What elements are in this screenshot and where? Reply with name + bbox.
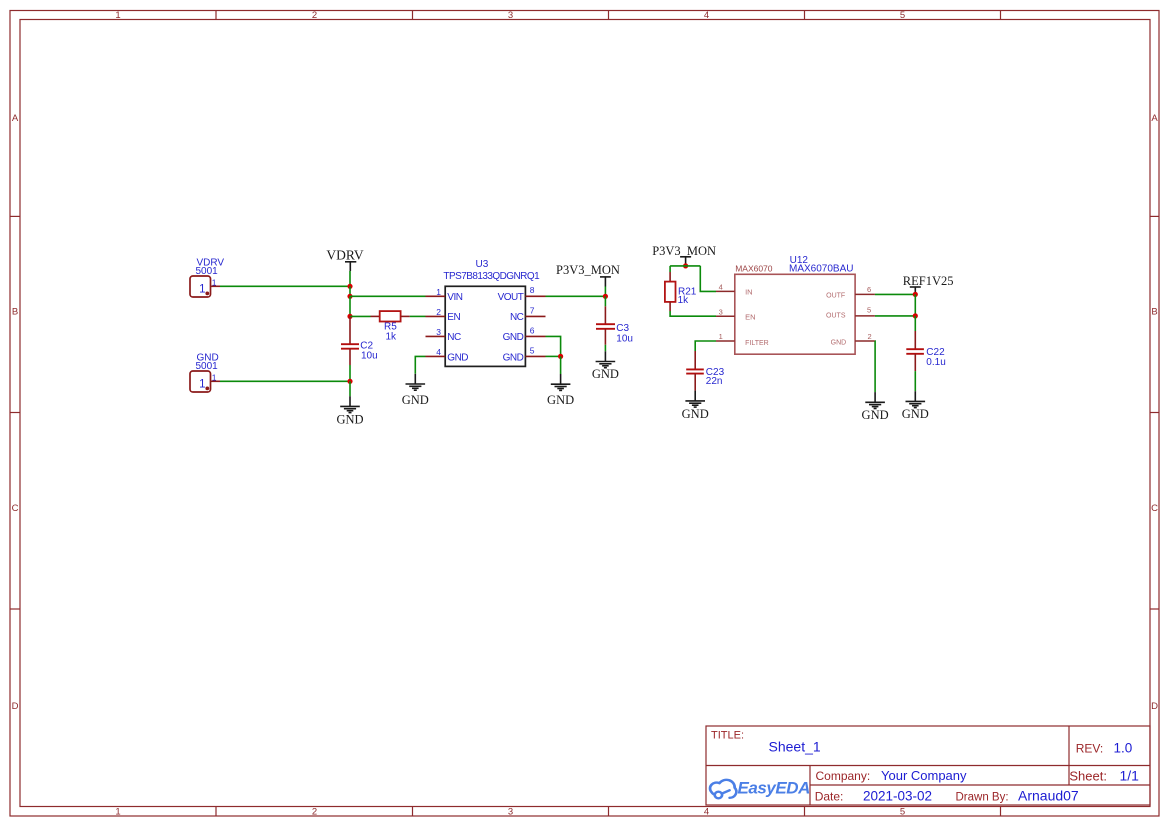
U12 pin 4 stub — [716, 290, 735, 292]
svg-text:GND: GND — [831, 340, 847, 347]
svg-text:Company:: Company: — [816, 769, 871, 783]
frame column numbers bottom — [115, 806, 905, 817]
junction REF1V25 lower — [913, 313, 918, 318]
svg-text:4: 4 — [704, 806, 709, 817]
connector GND pin 1 stub — [211, 380, 221, 382]
svg-text:GND: GND — [503, 352, 524, 363]
wire OUTS to node — [875, 315, 915, 317]
frame row letters right — [1151, 113, 1158, 712]
svg-text:5001: 5001 — [196, 361, 219, 372]
ground symbol U3 right — [551, 374, 571, 390]
connector P? GND 5001 — [190, 371, 211, 392]
svg-text:1: 1 — [199, 283, 205, 295]
svg-text:1: 1 — [719, 332, 723, 341]
wire junction to ground U3 right — [560, 356, 562, 374]
svg-text:D: D — [12, 701, 19, 712]
svg-text:8: 8 — [530, 285, 535, 295]
svg-text:2: 2 — [312, 806, 317, 817]
svg-text:4: 4 — [719, 283, 723, 292]
wire U3 pin 6 to pin 5 node — [546, 336, 561, 356]
svg-text:IN: IN — [745, 288, 753, 297]
title block lines — [706, 726, 1150, 805]
svg-text:GND: GND — [862, 408, 889, 422]
transistor U12 body — [735, 274, 855, 354]
svg-text:GND: GND — [547, 393, 574, 407]
U3 pin 5 stub — [525, 355, 545, 357]
svg-text:3: 3 — [719, 307, 723, 316]
svg-text:3: 3 — [508, 10, 513, 21]
wire REF node down — [914, 294, 916, 316]
svg-text:REV:: REV: — [1076, 742, 1104, 756]
svg-text:2021-03-02: 2021-03-02 — [863, 789, 932, 804]
svg-text:NC: NC — [447, 332, 461, 343]
wire GND connector to gnd node — [220, 380, 350, 382]
U12 pin 3 stub — [716, 315, 735, 317]
svg-text:MAX6070: MAX6070 — [735, 264, 773, 274]
wire node to C22 — [914, 316, 916, 331]
junction REF1V25 upper — [913, 292, 918, 297]
U3 pin 1 stub — [426, 295, 446, 297]
wire R21 bottom to EN — [670, 311, 716, 316]
svg-text:10u: 10u — [361, 351, 378, 362]
svg-text:GND: GND — [447, 352, 468, 363]
wire EN tap to R5 — [350, 315, 371, 317]
svg-text:B: B — [12, 307, 18, 318]
svg-text:Arnaud07: Arnaud07 — [1018, 788, 1079, 804]
wire P3V3_MON node horizontal — [670, 265, 700, 267]
svg-text:1: 1 — [436, 287, 441, 297]
U12 pin 2 stub — [855, 340, 875, 342]
svg-text:5: 5 — [530, 345, 535, 355]
wire rail down to EN tap — [349, 296, 351, 316]
U3 pin 8 stub — [525, 295, 545, 297]
svg-text:GND: GND — [503, 332, 524, 343]
svg-text:4: 4 — [704, 10, 709, 21]
svg-text:2: 2 — [868, 332, 872, 341]
U3 pin 3 stub — [426, 335, 446, 337]
U3 pin 4 stub — [426, 355, 446, 357]
U12 pin 6 stub — [855, 293, 875, 295]
wire FILTER to C23 — [695, 341, 716, 351]
wire OUTF to REF1V25 node — [875, 293, 915, 295]
svg-text:2: 2 — [312, 10, 317, 21]
net flag REF1V25 — [903, 274, 954, 294]
svg-text:D: D — [1151, 701, 1158, 712]
svg-text:MAX6070BAU: MAX6070BAU — [789, 263, 853, 274]
junction P3V3_MON at U3 — [603, 294, 608, 299]
svg-text:OUTS: OUTS — [826, 313, 846, 320]
svg-text:1: 1 — [212, 372, 217, 382]
ground symbol U3 pin 4 — [406, 374, 426, 390]
U12 pin 1 stub — [716, 340, 735, 342]
svg-text:6: 6 — [530, 325, 535, 335]
wire node down to R21 — [669, 266, 671, 272]
svg-text:OUTF: OUTF — [826, 293, 845, 300]
svg-text:5: 5 — [867, 305, 871, 314]
wire C3 to ground — [604, 345, 606, 352]
net flag VDRV — [326, 248, 363, 271]
svg-text:5: 5 — [900, 10, 905, 21]
frame column numbers top — [115, 10, 905, 21]
wire R5 to U3 pin 2 — [410, 315, 426, 317]
svg-text:A: A — [12, 113, 19, 124]
svg-text:3: 3 — [436, 327, 441, 337]
U3 pin 6 stub — [525, 335, 545, 337]
svg-text:GND: GND — [402, 393, 429, 407]
svg-text:3: 3 — [508, 806, 513, 817]
svg-text:A: A — [1151, 113, 1158, 124]
wire gnd node to ground symbol — [349, 381, 351, 396]
svg-text:EN: EN — [447, 312, 460, 323]
svg-text:6: 6 — [867, 285, 871, 294]
svg-text:Drawn By:: Drawn By: — [956, 792, 1009, 804]
ground symbol U12 pin 2 — [865, 392, 885, 408]
svg-text:Sheet:: Sheet: — [1069, 769, 1107, 784]
svg-text:Sheet_1: Sheet_1 — [769, 739, 821, 755]
svg-text:U3: U3 — [476, 259, 489, 270]
wire rail down to VIN tap — [349, 286, 351, 296]
svg-text:GND: GND — [682, 407, 709, 421]
svg-text:0.1u: 0.1u — [926, 357, 945, 368]
wire U3 pin 5 to node — [546, 355, 561, 357]
junction U3 pin5/pin6 — [558, 354, 563, 359]
svg-text:TPS7B8133QDGNRQ1: TPS7B8133QDGNRQ1 — [443, 271, 540, 282]
wire U3 pin 4 to ground — [415, 356, 425, 373]
U12 pin 5 stub — [855, 315, 875, 317]
op-amp U3 body — [445, 286, 525, 366]
wire P3V3_MON flag stem — [604, 287, 606, 297]
junction gnd node — [347, 379, 352, 384]
svg-text:4: 4 — [436, 347, 441, 357]
svg-text:7: 7 — [530, 305, 535, 315]
junction P3V3_MON at U12 — [683, 263, 688, 268]
wire VDRV flag to rail — [349, 271, 351, 286]
svg-text:1: 1 — [115, 806, 120, 817]
svg-text:10u: 10u — [616, 334, 633, 345]
capacitor C23 — [686, 351, 704, 391]
wire rail VIN tap to U3 pin 1 — [350, 295, 426, 297]
junction VDRV rail top — [347, 284, 352, 289]
capacitor C2 — [341, 316, 359, 365]
wire C2 to GND rail — [349, 365, 351, 381]
svg-text:GND: GND — [902, 407, 929, 421]
svg-text:Your Company: Your Company — [881, 768, 967, 783]
U3 pin 2 stub — [426, 315, 446, 317]
svg-text:C: C — [12, 503, 19, 514]
svg-text:1/1: 1/1 — [1120, 768, 1140, 784]
wire U12 pin 2 to ground — [874, 341, 876, 392]
svg-text:2: 2 — [436, 307, 441, 317]
svg-text:GND: GND — [592, 367, 619, 381]
svg-text:P3V3_MON: P3V3_MON — [652, 244, 716, 258]
frame row letters left — [12, 113, 19, 712]
resistor R5 — [371, 311, 410, 321]
wire node to C3 — [604, 296, 606, 306]
svg-text:REF1V25: REF1V25 — [903, 274, 954, 288]
svg-text:1.0: 1.0 — [1114, 741, 1133, 756]
resistor R21 — [665, 272, 676, 311]
svg-text:1k: 1k — [386, 331, 398, 342]
svg-text:1: 1 — [212, 277, 217, 287]
svg-text:VIN: VIN — [447, 292, 462, 303]
net flag P3V3_MON at U3 — [556, 263, 620, 287]
svg-text:5001: 5001 — [196, 266, 219, 277]
capacitor C3 — [596, 306, 615, 345]
svg-text:Date:: Date: — [815, 790, 844, 804]
EasyEDA logo cloud icon — [710, 780, 736, 798]
capacitor C22 — [906, 331, 924, 371]
wire C22 to ground — [914, 371, 916, 391]
U3 pin 7 stub — [525, 315, 545, 317]
ground symbol C22 — [906, 391, 926, 407]
svg-text:1k: 1k — [678, 295, 690, 306]
net flag P3V3_MON at U12 — [652, 244, 716, 266]
ground symbol main rail — [340, 396, 360, 412]
wire node right to IN — [700, 266, 716, 292]
svg-text:TITLE:: TITLE: — [711, 730, 744, 742]
wire VDRV connector to VDRV rail — [220, 285, 350, 287]
svg-text:C: C — [1151, 503, 1158, 514]
wire U3 pin 8 to P3V3_MON node — [546, 295, 606, 297]
connector VDRV pin 1 stub — [211, 285, 221, 287]
ground symbol C3 — [596, 351, 616, 367]
svg-text:5: 5 — [900, 806, 905, 817]
ground symbol C23 — [685, 391, 705, 408]
svg-text:B: B — [1151, 307, 1157, 318]
svg-text:1: 1 — [115, 10, 120, 21]
connector P? VDRV 5001 — [190, 276, 211, 297]
junction VIN tap — [347, 294, 352, 299]
svg-text:EasyEDA: EasyEDA — [738, 778, 811, 797]
svg-text:EN: EN — [745, 313, 755, 322]
svg-text:NC: NC — [510, 312, 524, 323]
junction EN tap — [347, 314, 352, 319]
svg-text:FILTER: FILTER — [745, 340, 769, 347]
svg-text:22n: 22n — [706, 376, 723, 387]
svg-text:P3V3_MON: P3V3_MON — [556, 263, 620, 277]
svg-text:GND: GND — [336, 412, 363, 426]
svg-text:VOUT: VOUT — [498, 292, 524, 303]
svg-text:1: 1 — [199, 378, 205, 390]
svg-text:VDRV: VDRV — [326, 248, 363, 263]
